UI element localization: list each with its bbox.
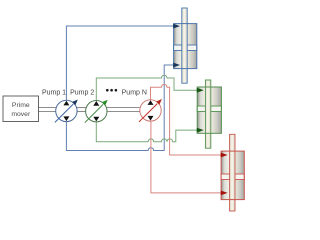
cylinder C (red, actuator of pump N) xyxy=(221,134,244,211)
wire blue P1 top port to cylinder A rod-end xyxy=(66,26,173,101)
svg-text:Pump 1: Pump 1 xyxy=(42,90,66,97)
svg-text:Prime: Prime xyxy=(12,102,30,109)
port arrow blue top xyxy=(173,24,180,29)
svg-text:Pump 2: Pump 2 xyxy=(70,90,94,97)
pump PN (variable displacement, red) xyxy=(139,99,162,122)
svg-text:Pump N: Pump N xyxy=(122,90,147,97)
svg-text:mover: mover xyxy=(11,111,31,118)
pump P1 (variable displacement, blue) xyxy=(55,100,78,123)
port arrow blue bottom xyxy=(173,63,180,68)
prime mover M xyxy=(3,96,39,122)
wire red PN bottom port to cylinder C cap-end xyxy=(151,121,221,193)
shaft: pump P1 to pump P2 xyxy=(77,108,86,112)
wire green P2 top port to cylinder B rod-end xyxy=(96,75,197,101)
pump P2 (variable displacement, green) xyxy=(85,100,108,123)
cylinder B (green, actuator of pump 2) xyxy=(197,80,221,148)
port arrow green bottom xyxy=(197,128,204,133)
port arrow red top xyxy=(221,153,228,158)
wire green P2 bottom port to cylinder B cap-end xyxy=(96,122,197,142)
shaft: prime mover to pump P1 xyxy=(39,108,57,112)
port arrow green top xyxy=(197,88,204,93)
wire red PN top port to cylinder C rod-end xyxy=(151,84,222,155)
port arrow red bottom xyxy=(221,191,228,196)
shaft: pump P2 to pump PN xyxy=(107,108,141,112)
dots: additional pumps ellipsis xyxy=(106,89,117,92)
cylinder A (blue, actuator of pump 1) xyxy=(174,8,197,83)
wire blue P1 bottom port to cylinder A cap-end xyxy=(66,65,173,151)
